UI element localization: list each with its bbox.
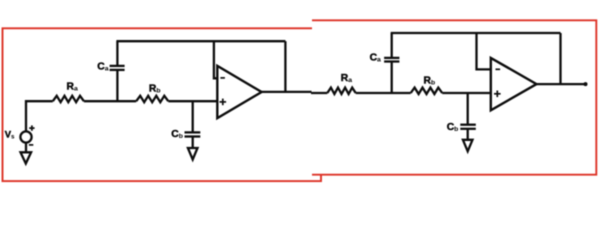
svg-text:Cb: Cb (171, 129, 183, 140)
svg-text:Ca: Ca (97, 62, 108, 73)
svg-text:Rb: Rb (149, 84, 161, 95)
svg-text:Vs: Vs (5, 129, 15, 141)
svg-text:Ra: Ra (67, 82, 78, 93)
